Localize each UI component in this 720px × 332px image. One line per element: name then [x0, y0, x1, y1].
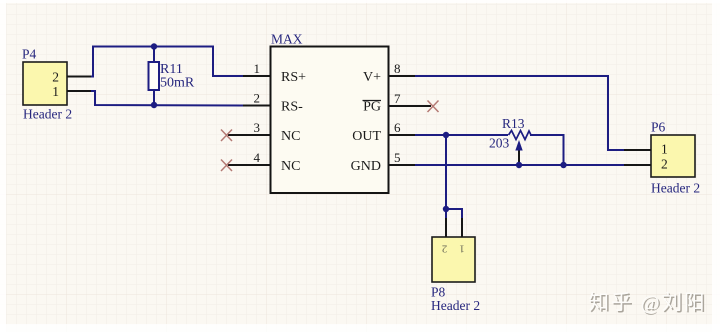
svg-text:2: 2	[661, 157, 668, 172]
pin P4.1	[67, 90, 91, 92]
svg-text:Header 2: Header 2	[651, 181, 700, 196]
svg-text:2: 2	[442, 243, 448, 255]
svg-text:203: 203	[489, 136, 510, 151]
svg-text:Header 2: Header 2	[23, 107, 72, 122]
svg-text:NC: NC	[281, 159, 300, 174]
node junction OUT	[443, 132, 449, 138]
node junction R11 top	[151, 43, 157, 49]
svg-text:1: 1	[254, 61, 261, 76]
no-connect X pin 7	[428, 101, 439, 113]
svg-text:2: 2	[52, 70, 59, 85]
svg-text:RS-: RS-	[281, 100, 303, 115]
svg-text:V+: V+	[363, 70, 381, 85]
svg-text:NC: NC	[281, 129, 300, 144]
pin P8.2	[461, 218, 463, 237]
node junction R11 bottom	[151, 102, 157, 108]
pin 6 OUT	[352, 120, 417, 144]
svg-text:1: 1	[459, 243, 465, 255]
svg-text:4: 4	[254, 150, 261, 165]
svg-text:MAX: MAX	[271, 32, 303, 47]
svg-text:5: 5	[394, 150, 401, 165]
node junction R13 wiper	[516, 162, 522, 168]
header P8	[431, 237, 480, 313]
svg-text:PG: PG	[363, 100, 381, 115]
no-connect X pin 4	[221, 160, 232, 172]
header P6	[651, 120, 700, 196]
wire P4.1 to R11 bottom rail to U1 pin2	[91, 91, 243, 106]
svg-text:50mR: 50mR	[160, 76, 195, 91]
wire OUT net to R13	[415, 135, 564, 165]
pin P6.1	[624, 149, 651, 151]
wire V+ net to P6 pin1	[415, 76, 651, 150]
pin 5 GND	[351, 150, 417, 174]
watermark	[589, 291, 709, 316]
pin 2 RS-	[243, 91, 303, 115]
svg-text:知乎 @刘阳: 知乎 @刘阳	[589, 291, 707, 314]
svg-text:Header 2: Header 2	[431, 298, 480, 313]
header P4	[22, 47, 72, 122]
potentiometer R13	[489, 116, 531, 165]
svg-text:2: 2	[254, 91, 261, 106]
wire GND net U1 pin5 to P6 pin2	[415, 164, 651, 166]
wire OUT branch down to P8	[446, 135, 462, 237]
svg-text:7: 7	[394, 91, 401, 106]
pin 4 NC	[228, 150, 300, 174]
resistor R11	[149, 47, 195, 106]
node junction P8 branch	[443, 206, 449, 212]
svg-text:R13: R13	[502, 116, 525, 131]
pin 3 NC	[228, 120, 300, 144]
svg-text:P4: P4	[22, 47, 37, 62]
pin P6.2	[624, 164, 651, 166]
svg-text:RS+: RS+	[281, 70, 306, 85]
svg-text:P6: P6	[651, 120, 666, 135]
svg-text:OUT: OUT	[352, 129, 381, 144]
svg-text:1: 1	[52, 84, 59, 99]
pin 7 PG (active low)	[363, 91, 432, 115]
no-connect X pin 3	[221, 130, 232, 142]
node junction R13 right leg	[560, 162, 566, 168]
svg-text:GND: GND	[351, 159, 381, 174]
svg-text:1: 1	[661, 142, 668, 157]
svg-text:8: 8	[394, 61, 401, 76]
pin P8.1	[445, 218, 447, 237]
op-amp U1 MAX body	[271, 32, 389, 194]
wire P4.2 to R11 top rail to U1 pin1	[91, 47, 243, 77]
pin 1 RS+	[243, 61, 306, 85]
svg-text:3: 3	[254, 120, 261, 135]
pin P4.2	[67, 76, 91, 78]
pin 8 V+	[363, 61, 417, 85]
svg-text:6: 6	[394, 120, 401, 135]
